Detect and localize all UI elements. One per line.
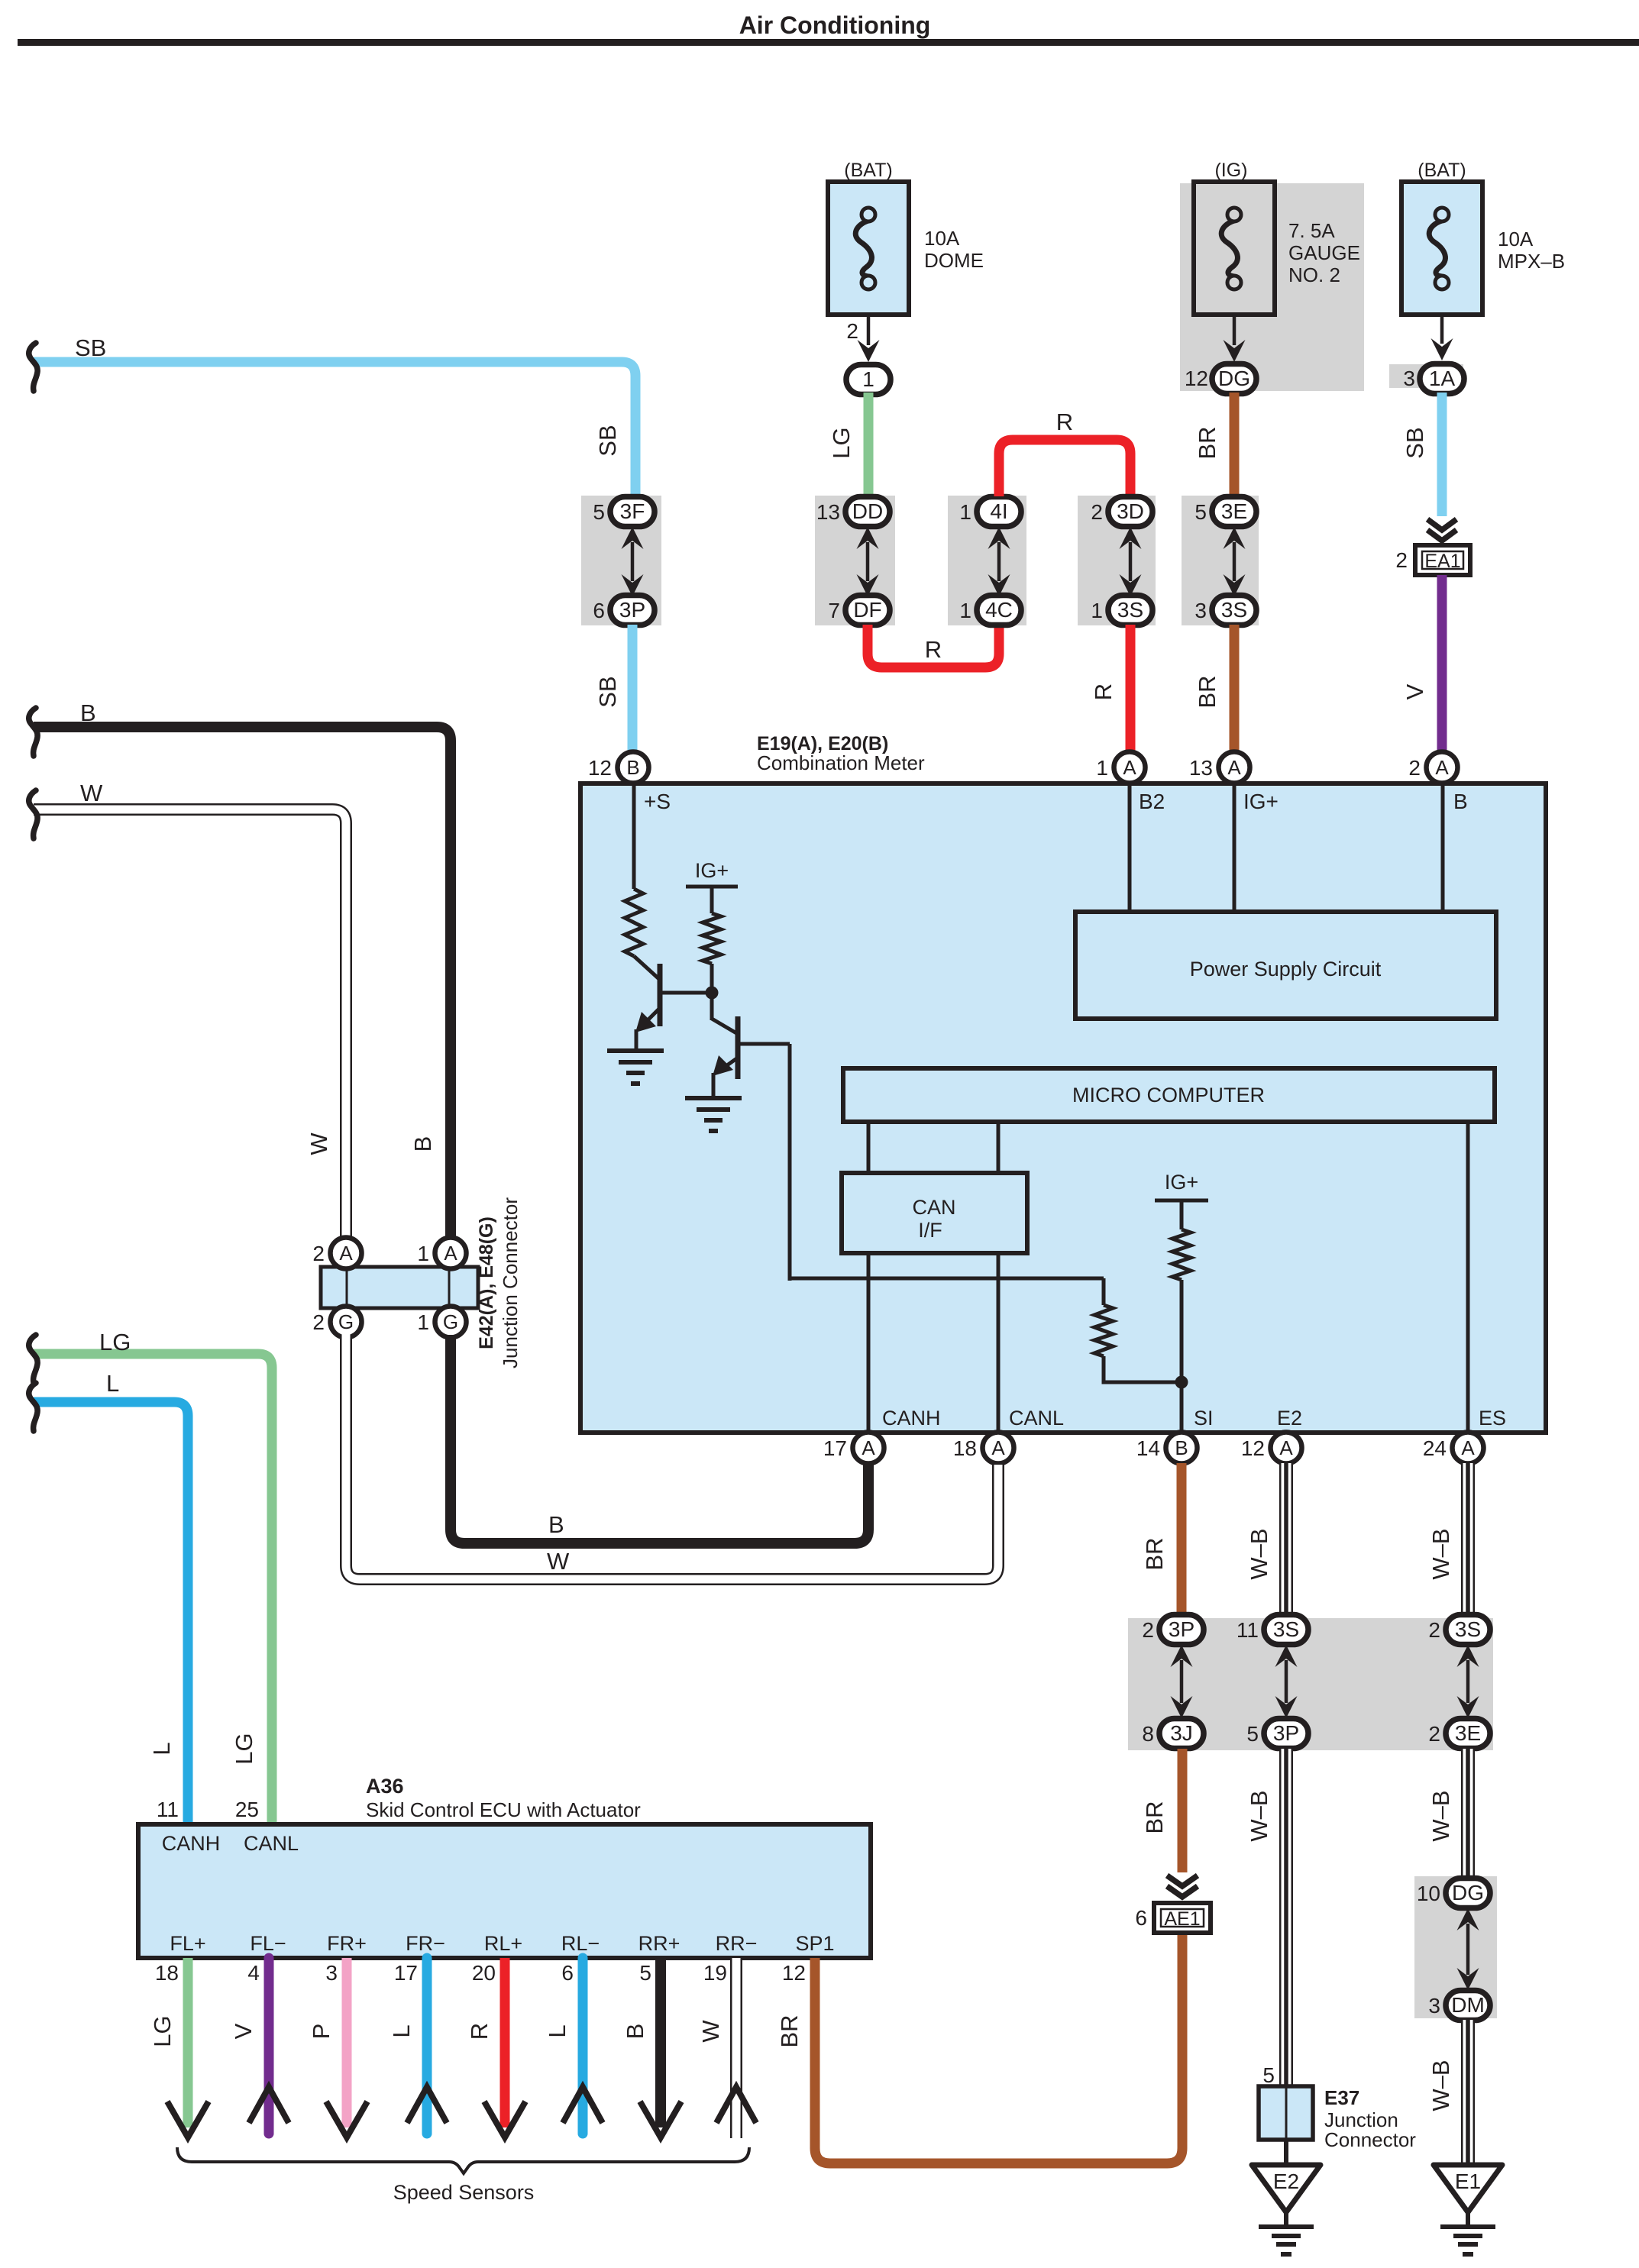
- svg-text:LG: LG: [149, 2015, 176, 2047]
- wire L page-left to skid ECU pin 11: [34, 1402, 188, 1827]
- svg-text:CANL: CANL: [244, 1832, 299, 1855]
- svg-text:(IG): (IG): [1214, 160, 1247, 181]
- svg-text:G: G: [338, 1310, 354, 1333]
- svg-text:Junction Connector: Junction Connector: [499, 1197, 522, 1368]
- wire SB page-left to 3F: [34, 362, 635, 499]
- svg-text:BR: BR: [1141, 1537, 1168, 1570]
- speed sensors brace: [177, 2147, 749, 2173]
- wire W-B DM to ground E1: [1461, 2020, 1475, 2166]
- svg-text:FR−: FR−: [406, 1932, 445, 1955]
- junction pin 2 (A): [331, 1238, 362, 1269]
- svg-text:B: B: [626, 756, 639, 779]
- wire MC to CAN I/F left: [867, 1122, 871, 1173]
- svg-text:3J: 3J: [1170, 1721, 1193, 1745]
- svg-text:SI: SI: [1194, 1407, 1214, 1430]
- ground (meter Q2): [685, 1098, 742, 1131]
- svg-text:10A: 10A: [924, 227, 960, 250]
- gray band 3E/3S: [1182, 496, 1259, 625]
- node junction dot: [706, 987, 719, 1000]
- svg-text:G: G: [443, 1310, 458, 1333]
- svg-text:2: 2: [846, 319, 858, 343]
- svg-text:6: 6: [561, 1961, 574, 1985]
- svg-text:R: R: [1056, 409, 1073, 435]
- connector box EA1: [1415, 545, 1470, 575]
- gray band 4I/4C: [948, 496, 1026, 625]
- connector oval 3J: [1159, 1719, 1204, 1749]
- fuse F3 10A MPX-B: [1401, 182, 1482, 315]
- harness chevrons above EA1: [1427, 519, 1456, 541]
- wire P sensor (down): [342, 1958, 352, 2127]
- svg-text:Skid Control ECU with Actuator: Skid Control ECU with Actuator: [366, 1798, 641, 1821]
- connector oval 3P: [1159, 1615, 1204, 1645]
- svg-text:RR−: RR−: [716, 1932, 758, 1955]
- svg-text:B: B: [1453, 790, 1468, 813]
- svg-text:2: 2: [1408, 756, 1421, 780]
- meter pin 1 (A): [1114, 752, 1146, 783]
- svg-text:13: 13: [816, 500, 840, 524]
- svg-text:5: 5: [593, 500, 605, 524]
- connector oval 3S: [1212, 596, 1256, 625]
- fuse F2 7.5A GAUGE NO.2: [1194, 182, 1275, 315]
- svg-text:6: 6: [1135, 1906, 1147, 1930]
- svg-text:25: 25: [235, 1798, 259, 1821]
- wire SB 1A to EA1: [1437, 393, 1447, 516]
- svg-text:CANH: CANH: [162, 1832, 221, 1855]
- svg-text:DOME: DOME: [924, 249, 984, 272]
- svg-text:L: L: [388, 2024, 415, 2037]
- svg-text:3P: 3P: [1169, 1617, 1194, 1641]
- svg-text:MPX–B: MPX–B: [1498, 250, 1565, 273]
- ground E2: [1252, 2165, 1321, 2254]
- svg-text:Connector: Connector: [1324, 2128, 1416, 2151]
- junction connector E42/E48 box: [321, 1267, 478, 1308]
- svg-text:A: A: [1123, 756, 1136, 779]
- svg-text:12: 12: [1185, 367, 1208, 390]
- svg-text:L: L: [544, 2024, 571, 2037]
- wire W-B 3E to DG: [1461, 1749, 1475, 1880]
- ground E1: [1434, 2165, 1502, 2254]
- gray band lower connectors: [1128, 1618, 1493, 1750]
- svg-text:GAUGE: GAUGE: [1288, 241, 1360, 264]
- svg-text:W–B: W–B: [1427, 1790, 1454, 1841]
- svg-text:3F: 3F: [620, 499, 645, 523]
- pair arrow 3S-3E: [1457, 1645, 1479, 1718]
- junction pin 1 (A): [435, 1238, 467, 1269]
- svg-text:R: R: [466, 2023, 493, 2040]
- Skid Control ECU box: [138, 1824, 871, 1958]
- wire IG+ internal: [1233, 783, 1237, 912]
- wire B sensor (down): [655, 1958, 666, 2127]
- connector oval 3S: [1108, 596, 1152, 625]
- svg-text:4: 4: [247, 1961, 260, 1985]
- connector oval 3E: [1212, 497, 1256, 527]
- svg-text:3P: 3P: [619, 598, 645, 622]
- arrow fuse F3 to connector 1A: [1431, 313, 1453, 360]
- wire BR DG to 3E: [1230, 393, 1240, 499]
- wire V EA1 to meter pin 2: [1437, 575, 1447, 754]
- svg-text:SB: SB: [1401, 427, 1428, 458]
- pair arrow 3E-3S: [1224, 527, 1246, 596]
- wire Q2 collector down: [788, 1044, 792, 1281]
- wire IG+ to R4: [1180, 1200, 1184, 1229]
- svg-text:17: 17: [394, 1961, 418, 1985]
- wire L sensor (up): [422, 1958, 432, 2134]
- sensor arrow down: [484, 2102, 525, 2137]
- meter pin 24 (A) ES: [1453, 1433, 1484, 1464]
- wire E37 to ground E2: [1284, 2140, 1288, 2167]
- svg-text:1: 1: [417, 1242, 429, 1265]
- wire L sensor (up): [578, 1958, 588, 2134]
- svg-text:2: 2: [1428, 1618, 1440, 1642]
- gray panel of GAUGE fuse: [1180, 183, 1364, 391]
- connector oval 3P: [1264, 1719, 1308, 1749]
- CAN I/F box: [842, 1173, 1027, 1253]
- svg-text:19: 19: [703, 1961, 727, 1985]
- svg-text:+S: +S: [644, 790, 671, 813]
- connector oval 3S: [1446, 1615, 1490, 1645]
- svg-text:A: A: [339, 1242, 353, 1265]
- svg-text:1: 1: [862, 367, 874, 391]
- svg-text:5: 5: [639, 1961, 651, 1985]
- svg-text:Air Conditioning: Air Conditioning: [739, 11, 931, 39]
- svg-text:B: B: [1175, 1436, 1188, 1459]
- svg-text:3E: 3E: [1455, 1721, 1481, 1745]
- svg-text:L: L: [106, 1370, 119, 1397]
- svg-text:E2: E2: [1273, 2169, 1299, 2193]
- svg-text:3: 3: [1428, 1994, 1440, 2018]
- svg-text:2: 2: [312, 1310, 325, 1334]
- continuation squiggle W: [29, 790, 37, 838]
- svg-text:2: 2: [312, 1242, 325, 1265]
- svg-text:2: 2: [1091, 500, 1103, 524]
- transistor Q2: [712, 1016, 790, 1098]
- wire B internal: [1441, 783, 1445, 912]
- wire R2 to node: [710, 964, 714, 1020]
- svg-text:7: 7: [828, 599, 840, 622]
- svg-text:17: 17: [823, 1436, 847, 1460]
- svg-text:A: A: [1227, 756, 1241, 779]
- svg-text:2: 2: [1395, 548, 1408, 572]
- svg-text:W–B: W–B: [1427, 1528, 1454, 1579]
- svg-text:6: 6: [593, 599, 605, 622]
- wire W junction 2G to meter pin 18: [346, 1333, 998, 1579]
- svg-text:8: 8: [1142, 1722, 1154, 1746]
- svg-text:L: L: [148, 1742, 175, 1755]
- sensor arrow up: [407, 2087, 447, 2123]
- svg-text:SP1: SP1: [795, 1932, 834, 1955]
- meter pin 13 (A): [1219, 752, 1250, 783]
- svg-text:A: A: [444, 1242, 457, 1265]
- ground (meter Q1): [607, 1051, 664, 1084]
- svg-text:3S: 3S: [1455, 1617, 1481, 1641]
- gray band 3F/3P: [581, 496, 661, 625]
- wire CANH internal: [867, 1253, 871, 1433]
- continuation squiggle B: [29, 708, 37, 756]
- svg-text:W: W: [697, 2020, 724, 2043]
- svg-text:W: W: [305, 1132, 332, 1155]
- svg-text:BR: BR: [776, 2014, 803, 2047]
- svg-text:1: 1: [1091, 599, 1103, 622]
- sensor arrow down: [167, 2102, 209, 2137]
- svg-text:BR: BR: [1194, 675, 1220, 708]
- svg-text:10A: 10A: [1498, 228, 1534, 250]
- sensor arrow up RR-: [716, 2087, 756, 2123]
- arrow fuse F1 to connector 1: [858, 315, 880, 362]
- arrow fuse F2 to connector DG: [1224, 315, 1246, 362]
- wire W-B 3P to E37: [1279, 1749, 1293, 2088]
- svg-text:B: B: [409, 1136, 436, 1152]
- svg-text:IG+: IG+: [1243, 790, 1279, 813]
- svg-text:SB: SB: [75, 334, 106, 361]
- wire BR 3S to meter pin 13: [1230, 625, 1240, 754]
- pair arrow DG-DM: [1457, 1908, 1479, 1990]
- svg-text:1: 1: [959, 599, 971, 622]
- svg-text:1A: 1A: [1429, 367, 1456, 390]
- svg-text:FL+: FL+: [170, 1932, 205, 1955]
- svg-text:12: 12: [1241, 1436, 1265, 1460]
- svg-text:W–B: W–B: [1246, 1528, 1272, 1579]
- svg-text:1: 1: [959, 500, 971, 524]
- svg-text:LG: LG: [99, 1329, 131, 1355]
- transistor Q1: [634, 956, 712, 1051]
- svg-text:W: W: [80, 780, 103, 806]
- node junction dot SI: [1175, 1376, 1188, 1389]
- connector oval 1A: [1420, 364, 1464, 394]
- svg-text:BR: BR: [1141, 1801, 1168, 1833]
- svg-text:2: 2: [1428, 1722, 1440, 1746]
- svg-text:(BAT): (BAT): [844, 160, 892, 181]
- wire SI internal: [1180, 1280, 1184, 1433]
- svg-text:3S: 3S: [1117, 598, 1143, 622]
- svg-text:B2: B2: [1139, 790, 1165, 813]
- wire W-B meter pin 24 to connector 3S: [1461, 1463, 1475, 1616]
- fuse F1 10A DOME: [828, 182, 909, 315]
- wire R 3S to meter pin 1: [1126, 625, 1136, 754]
- svg-text:R: R: [1090, 683, 1117, 700]
- svg-text:18: 18: [155, 1961, 179, 1985]
- MICRO COMPUTER box: [843, 1068, 1495, 1122]
- wire CANL internal: [997, 1253, 1001, 1433]
- connector box AE1: [1154, 1903, 1211, 1933]
- continuation squiggle SB: [29, 343, 37, 391]
- svg-text:DM: DM: [1451, 1993, 1485, 2017]
- svg-text:A36: A36: [366, 1775, 404, 1798]
- svg-text:7. 5A: 7. 5A: [1288, 219, 1335, 242]
- wire W page-left to junction pin 2A: [34, 809, 346, 1242]
- svg-text:LG: LG: [828, 427, 855, 458]
- svg-text:NO. 2: NO. 2: [1288, 263, 1340, 286]
- svg-text:Speed Sensors: Speed Sensors: [393, 2181, 535, 2204]
- connector oval DM: [1446, 1991, 1490, 2021]
- svg-text:2: 2: [1142, 1618, 1154, 1642]
- continuation squiggle L: [29, 1383, 37, 1431]
- meter pin 2 (A): [1427, 752, 1458, 783]
- svg-text:DG: DG: [1452, 1881, 1484, 1905]
- svg-text:4C: 4C: [985, 598, 1013, 622]
- svg-text:BR: BR: [1194, 426, 1220, 459]
- header rule: [18, 39, 1639, 46]
- svg-text:B: B: [80, 699, 96, 726]
- svg-text:E37: E37: [1324, 2086, 1359, 2109]
- connector oval DG: [1446, 1879, 1490, 1908]
- connector oval 3D: [1108, 497, 1152, 527]
- svg-text:V: V: [230, 2023, 257, 2039]
- wire W-B meter pin 12 to connector 3S: [1279, 1463, 1293, 1616]
- connector oval DF: [845, 596, 890, 625]
- resistor R2: [703, 913, 721, 964]
- svg-text:P: P: [308, 2024, 335, 2040]
- wire R3 to node SI: [1104, 1356, 1182, 1382]
- sensor arrow up: [563, 2087, 603, 2123]
- svg-text:3: 3: [1403, 367, 1415, 390]
- wire BR 3J to AE1: [1178, 1749, 1188, 1872]
- svg-text:IG+: IG+: [695, 859, 729, 882]
- sensor arrow down: [640, 2102, 681, 2137]
- svg-text:3S: 3S: [1221, 598, 1247, 622]
- sensor arrow down: [326, 2102, 367, 2137]
- pair arrow 3D-3S: [1120, 527, 1142, 596]
- connector oval 3F: [610, 497, 655, 527]
- meter pin 14 (B): [1166, 1433, 1198, 1464]
- meter pin 12 (B): [618, 752, 649, 783]
- svg-text:3S: 3S: [1273, 1617, 1299, 1641]
- wire B page-left to junction pin 1A: [34, 727, 451, 1240]
- wire W RR- sensor (up): [730, 1958, 742, 2139]
- svg-text:1: 1: [1096, 756, 1108, 780]
- wire ES internal: [1466, 1122, 1470, 1433]
- svg-text:20: 20: [472, 1961, 496, 1985]
- connector oval 3E: [1446, 1719, 1490, 1749]
- svg-text:W: W: [547, 1548, 570, 1575]
- svg-text:24: 24: [1423, 1436, 1447, 1460]
- meter pin 17 (A): [853, 1433, 884, 1464]
- svg-text:DG: DG: [1218, 367, 1250, 390]
- svg-text:Power Supply Circuit: Power Supply Circuit: [1190, 958, 1382, 981]
- svg-text:E1: E1: [1455, 2169, 1481, 2193]
- svg-text:W–B: W–B: [1427, 2060, 1454, 2111]
- wire B2 internal: [1128, 783, 1132, 912]
- svg-text:18: 18: [953, 1436, 977, 1460]
- Combination Meter box: [580, 783, 1546, 1433]
- connector oval 4I: [977, 497, 1021, 527]
- svg-text:12: 12: [782, 1961, 806, 1985]
- svg-text:3D: 3D: [1117, 499, 1144, 523]
- svg-text:IG+: IG+: [1165, 1171, 1198, 1194]
- svg-text:(BAT): (BAT): [1418, 160, 1466, 181]
- svg-text:AE1: AE1: [1164, 1908, 1200, 1930]
- wire BR meter pin 14 to connector 3P: [1177, 1463, 1187, 1616]
- svg-text:MICRO COMPUTER: MICRO COMPUTER: [1072, 1084, 1265, 1107]
- svg-text:CANL: CANL: [1009, 1407, 1064, 1430]
- sensor arrow up: [249, 2087, 289, 2123]
- junction pin 2 (G): [331, 1307, 362, 1338]
- svg-text:CAN: CAN: [912, 1196, 955, 1219]
- wire LG fuse to DD: [864, 393, 874, 499]
- wire B junction 1G to meter pin 17: [451, 1335, 868, 1543]
- svg-text:R: R: [925, 636, 942, 663]
- svg-text:B: B: [622, 2024, 648, 2040]
- connector oval 3S: [1264, 1615, 1308, 1645]
- svg-text:CANH: CANH: [882, 1407, 941, 1430]
- svg-text:11: 11: [1237, 1618, 1259, 1642]
- svg-text:3P: 3P: [1273, 1721, 1299, 1745]
- svg-text:A: A: [1435, 756, 1449, 779]
- continuation squiggle LG: [29, 1335, 37, 1383]
- svg-text:12: 12: [588, 756, 612, 780]
- svg-text:5: 5: [1262, 2063, 1275, 2087]
- svg-text:11: 11: [157, 1798, 179, 1821]
- svg-text:1: 1: [417, 1310, 429, 1334]
- wire BR SP1 to AE1: [815, 1933, 1182, 2163]
- svg-text:RR+: RR+: [638, 1932, 680, 1955]
- resistor R4: [1172, 1229, 1191, 1280]
- connector oval DD: [845, 497, 890, 527]
- gray band DG/DM: [1414, 1876, 1497, 2018]
- wire MC to CAN I/F right: [997, 1122, 1001, 1173]
- junction connector E37: [1259, 2086, 1313, 2140]
- svg-text:SB: SB: [594, 425, 621, 456]
- IG+ power bar (SI branch): [1155, 1199, 1208, 1203]
- wire IG+ bar to R2: [710, 887, 714, 913]
- svg-text:A: A: [991, 1436, 1005, 1459]
- svg-text:EA1: EA1: [1424, 551, 1460, 572]
- wire R jumper DF to 4C: [868, 625, 999, 667]
- svg-text:4I: 4I: [990, 499, 1007, 523]
- resistor R1: [625, 889, 643, 956]
- wire V sensor (up): [264, 1958, 274, 2134]
- svg-text:W–B: W–B: [1246, 1790, 1272, 1841]
- meter pin 18 (A): [983, 1433, 1014, 1464]
- connector oval 3P: [610, 596, 655, 625]
- svg-text:3E: 3E: [1221, 499, 1247, 523]
- svg-text:DD: DD: [852, 499, 883, 523]
- wire +S internal: [632, 783, 636, 889]
- svg-text:5: 5: [1246, 1722, 1259, 1746]
- connector oval DG: [1212, 364, 1256, 394]
- wire SB 3P to meter pin 12: [628, 625, 638, 754]
- svg-text:RL−: RL−: [561, 1932, 600, 1955]
- svg-text:FL−: FL−: [250, 1932, 286, 1955]
- pair arrow 3P-3J: [1171, 1645, 1193, 1718]
- svg-text:14: 14: [1136, 1436, 1160, 1460]
- svg-text:B: B: [548, 1511, 564, 1538]
- wire R sensor (down): [500, 1958, 510, 2127]
- gray band DD/DF: [815, 496, 895, 625]
- Power Supply Circuit box: [1075, 912, 1496, 1019]
- svg-text:Combination Meter: Combination Meter: [757, 751, 925, 774]
- svg-text:3: 3: [1194, 599, 1207, 622]
- svg-text:A: A: [1279, 1436, 1293, 1459]
- svg-text:E42(A), E48(G): E42(A), E48(G): [476, 1216, 497, 1349]
- pair arrow 4I-4C: [988, 527, 1010, 596]
- svg-text:5: 5: [1194, 500, 1207, 524]
- IG+ power bar: [686, 885, 738, 889]
- wire LG page-left to skid ECU pin 25: [34, 1354, 272, 1827]
- svg-text:LG: LG: [231, 1733, 257, 1764]
- connector oval 1: [846, 365, 891, 395]
- resistor R3: [1094, 1305, 1113, 1356]
- svg-text:V: V: [1401, 683, 1428, 699]
- svg-text:RL+: RL+: [484, 1932, 522, 1955]
- svg-text:SB: SB: [594, 676, 621, 707]
- pair arrow 3S-3P: [1275, 1645, 1298, 1718]
- pair arrow 3F-3P: [622, 527, 644, 596]
- svg-text:I/F: I/F: [918, 1219, 942, 1242]
- junction pin 1 (G): [435, 1307, 467, 1338]
- svg-text:FR+: FR+: [327, 1932, 367, 1955]
- svg-text:DF: DF: [853, 598, 881, 622]
- gray strip behind 3 1A: [1389, 364, 1463, 388]
